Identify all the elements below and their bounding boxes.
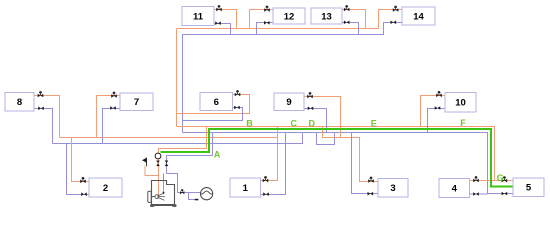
wire radiator 9 supply branch: [304, 97, 341, 138]
wire radiator 8 supply branch: [34, 96, 60, 138]
wire boiler return pipe: [167, 133, 213, 174]
lockshield valve radiator 4: [473, 192, 479, 196]
radiator 2: [89, 178, 122, 197]
wire radiator 13 supply branch: [342, 10, 366, 29]
wire radiator 12 return branch: [257, 23, 274, 35]
svg-text:B: B: [246, 118, 253, 128]
wire radiator 4 return branch: [470, 193, 488, 195]
lockshield valve radiator 12: [264, 21, 270, 25]
thermostatic valve radiator 10: [436, 91, 442, 97]
thermostatic valve radiator 5 node G: [502, 176, 508, 182]
thermostatic valve radiator 11: [216, 5, 222, 11]
wire purple main return: [183, 133, 514, 194]
lockshield valve radiator 6: [234, 106, 240, 110]
thermostatic valve radiator 8: [38, 91, 44, 97]
svg-text:G: G: [497, 173, 504, 183]
wire expansion vessel pipe: [167, 174, 201, 193]
wire radiator 13 return branch: [342, 23, 359, 35]
svg-text:1: 1: [243, 183, 249, 194]
radiator 12: [273, 8, 305, 24]
thermostatic valve radiator 9: [307, 92, 313, 98]
boiler: [148, 181, 177, 207]
wire radiator 8 return branch: [34, 109, 53, 144]
radiator 3: [378, 179, 408, 198]
wire radiator 10 supply branch: [421, 96, 446, 127]
thermostatic valve radiator 12: [264, 6, 270, 12]
isolating valve boiler return: [165, 161, 169, 167]
wire radiator 11 return branch: [214, 24, 231, 35]
lockshield valve radiator 11: [215, 21, 221, 25]
wire radiator 2 return branch: [67, 144, 90, 195]
thermostatic valve radiator 2: [80, 177, 86, 183]
svg-text:10: 10: [455, 98, 466, 109]
wire radiator 11 supply branch: [214, 10, 237, 29]
lockshield valve radiator 3: [368, 192, 374, 196]
wire radiator 3 return branch: [352, 133, 379, 194]
wire purple main jog at node D: [317, 133, 335, 145]
wire green index run: [161, 129, 514, 187]
radiator 13: [311, 8, 342, 24]
svg-text:D: D: [309, 118, 316, 128]
svg-text:13: 13: [321, 11, 332, 22]
radiator 11: [182, 7, 214, 26]
radiator 10: [445, 93, 476, 113]
wire purple return manifold top floor: [183, 23, 403, 35]
svg-text:C: C: [291, 118, 298, 128]
fuel pipe to burner: [145, 166, 159, 176]
radiator 9: [274, 93, 304, 111]
wire orange lower branch: [60, 137, 278, 139]
wire radiator 7 return branch: [103, 109, 121, 144]
radiator 1: [230, 178, 261, 197]
thermostatic valve radiator 7: [111, 92, 117, 98]
svg-text:3: 3: [390, 183, 395, 194]
radiator 14: [402, 7, 435, 25]
pump circle: [155, 153, 161, 159]
drain outlet arrow: [195, 199, 199, 201]
radiator 7: [120, 93, 153, 111]
svg-text:6: 6: [214, 97, 219, 108]
lockshield valve radiator 9: [308, 107, 314, 111]
wire orange supply manifold top floor: [177, 10, 403, 29]
svg-text:9: 9: [286, 97, 291, 108]
thermostatic valve radiator 13: [344, 5, 350, 11]
svg-text:2: 2: [103, 183, 108, 194]
lockshield valve radiator 5: [502, 192, 508, 196]
wire radiator 6 supply loop: [177, 95, 250, 114]
thermostatic valve radiator 1: [263, 176, 269, 182]
lockshield valve radiator 8: [38, 107, 44, 111]
svg-text:8: 8: [17, 97, 22, 108]
lockshield valve radiator 10: [435, 106, 441, 110]
thermostatic valve radiator 6: [235, 90, 241, 96]
thermostatic valve radiator 4: [473, 176, 479, 182]
wire purple riser from top floor: [182, 35, 184, 133]
wire radiator 7 supply branch: [97, 96, 121, 138]
svg-text:5: 5: [526, 183, 532, 194]
wire radiator 2 supply branch: [72, 138, 90, 182]
svg-text:4: 4: [452, 183, 458, 194]
wire boiler supply pipe: [159, 127, 207, 196]
wire radiator 12 supply branch: [250, 10, 274, 29]
lockshield valve radiator 7: [110, 106, 116, 110]
wire radiator 10 return branch: [428, 109, 446, 133]
svg-text:12: 12: [284, 11, 295, 22]
radiator 5: [513, 178, 544, 197]
svg-text:F: F: [460, 118, 466, 128]
wire boiler return inlet: [163, 174, 165, 194]
thermostatic valve radiator 14: [393, 6, 399, 12]
thermostatic valve radiator 3: [368, 177, 374, 183]
lockshield valve radiator 13: [344, 21, 350, 25]
radiator 4: [439, 179, 470, 198]
svg-text:E: E: [371, 118, 377, 128]
valve on expansion vessel pipe: [180, 189, 184, 194]
wire radiator 6 return loop: [183, 108, 243, 121]
lockshield valve radiator 14: [391, 21, 397, 25]
wire orange riser to top floor: [176, 29, 178, 127]
svg-text:11: 11: [193, 11, 204, 22]
wire purple lower branch: [53, 133, 303, 144]
expansion vessel: [201, 188, 213, 200]
wire radiator 1 return riser: [261, 133, 286, 195]
radiator 6: [200, 93, 233, 111]
wire radiator 4 and 5 supply line: [470, 180, 514, 182]
radiator 8: [5, 93, 34, 112]
svg-text:A: A: [214, 150, 221, 160]
wire drain pipe: [189, 193, 196, 200]
lockshield valve radiator 2: [81, 192, 87, 196]
isolating valve boiler supply: [156, 161, 160, 167]
wire node D supply branch: [323, 127, 379, 182]
wire orange main supply: [177, 127, 495, 181]
wire radiator 1 supply riser: [261, 127, 278, 181]
lockshield valve radiator 1: [263, 192, 269, 196]
svg-text:14: 14: [413, 11, 424, 22]
fuel cock flag: [142, 158, 147, 167]
wire radiator 9 return branch: [304, 109, 327, 133]
svg-text:7: 7: [134, 97, 139, 108]
